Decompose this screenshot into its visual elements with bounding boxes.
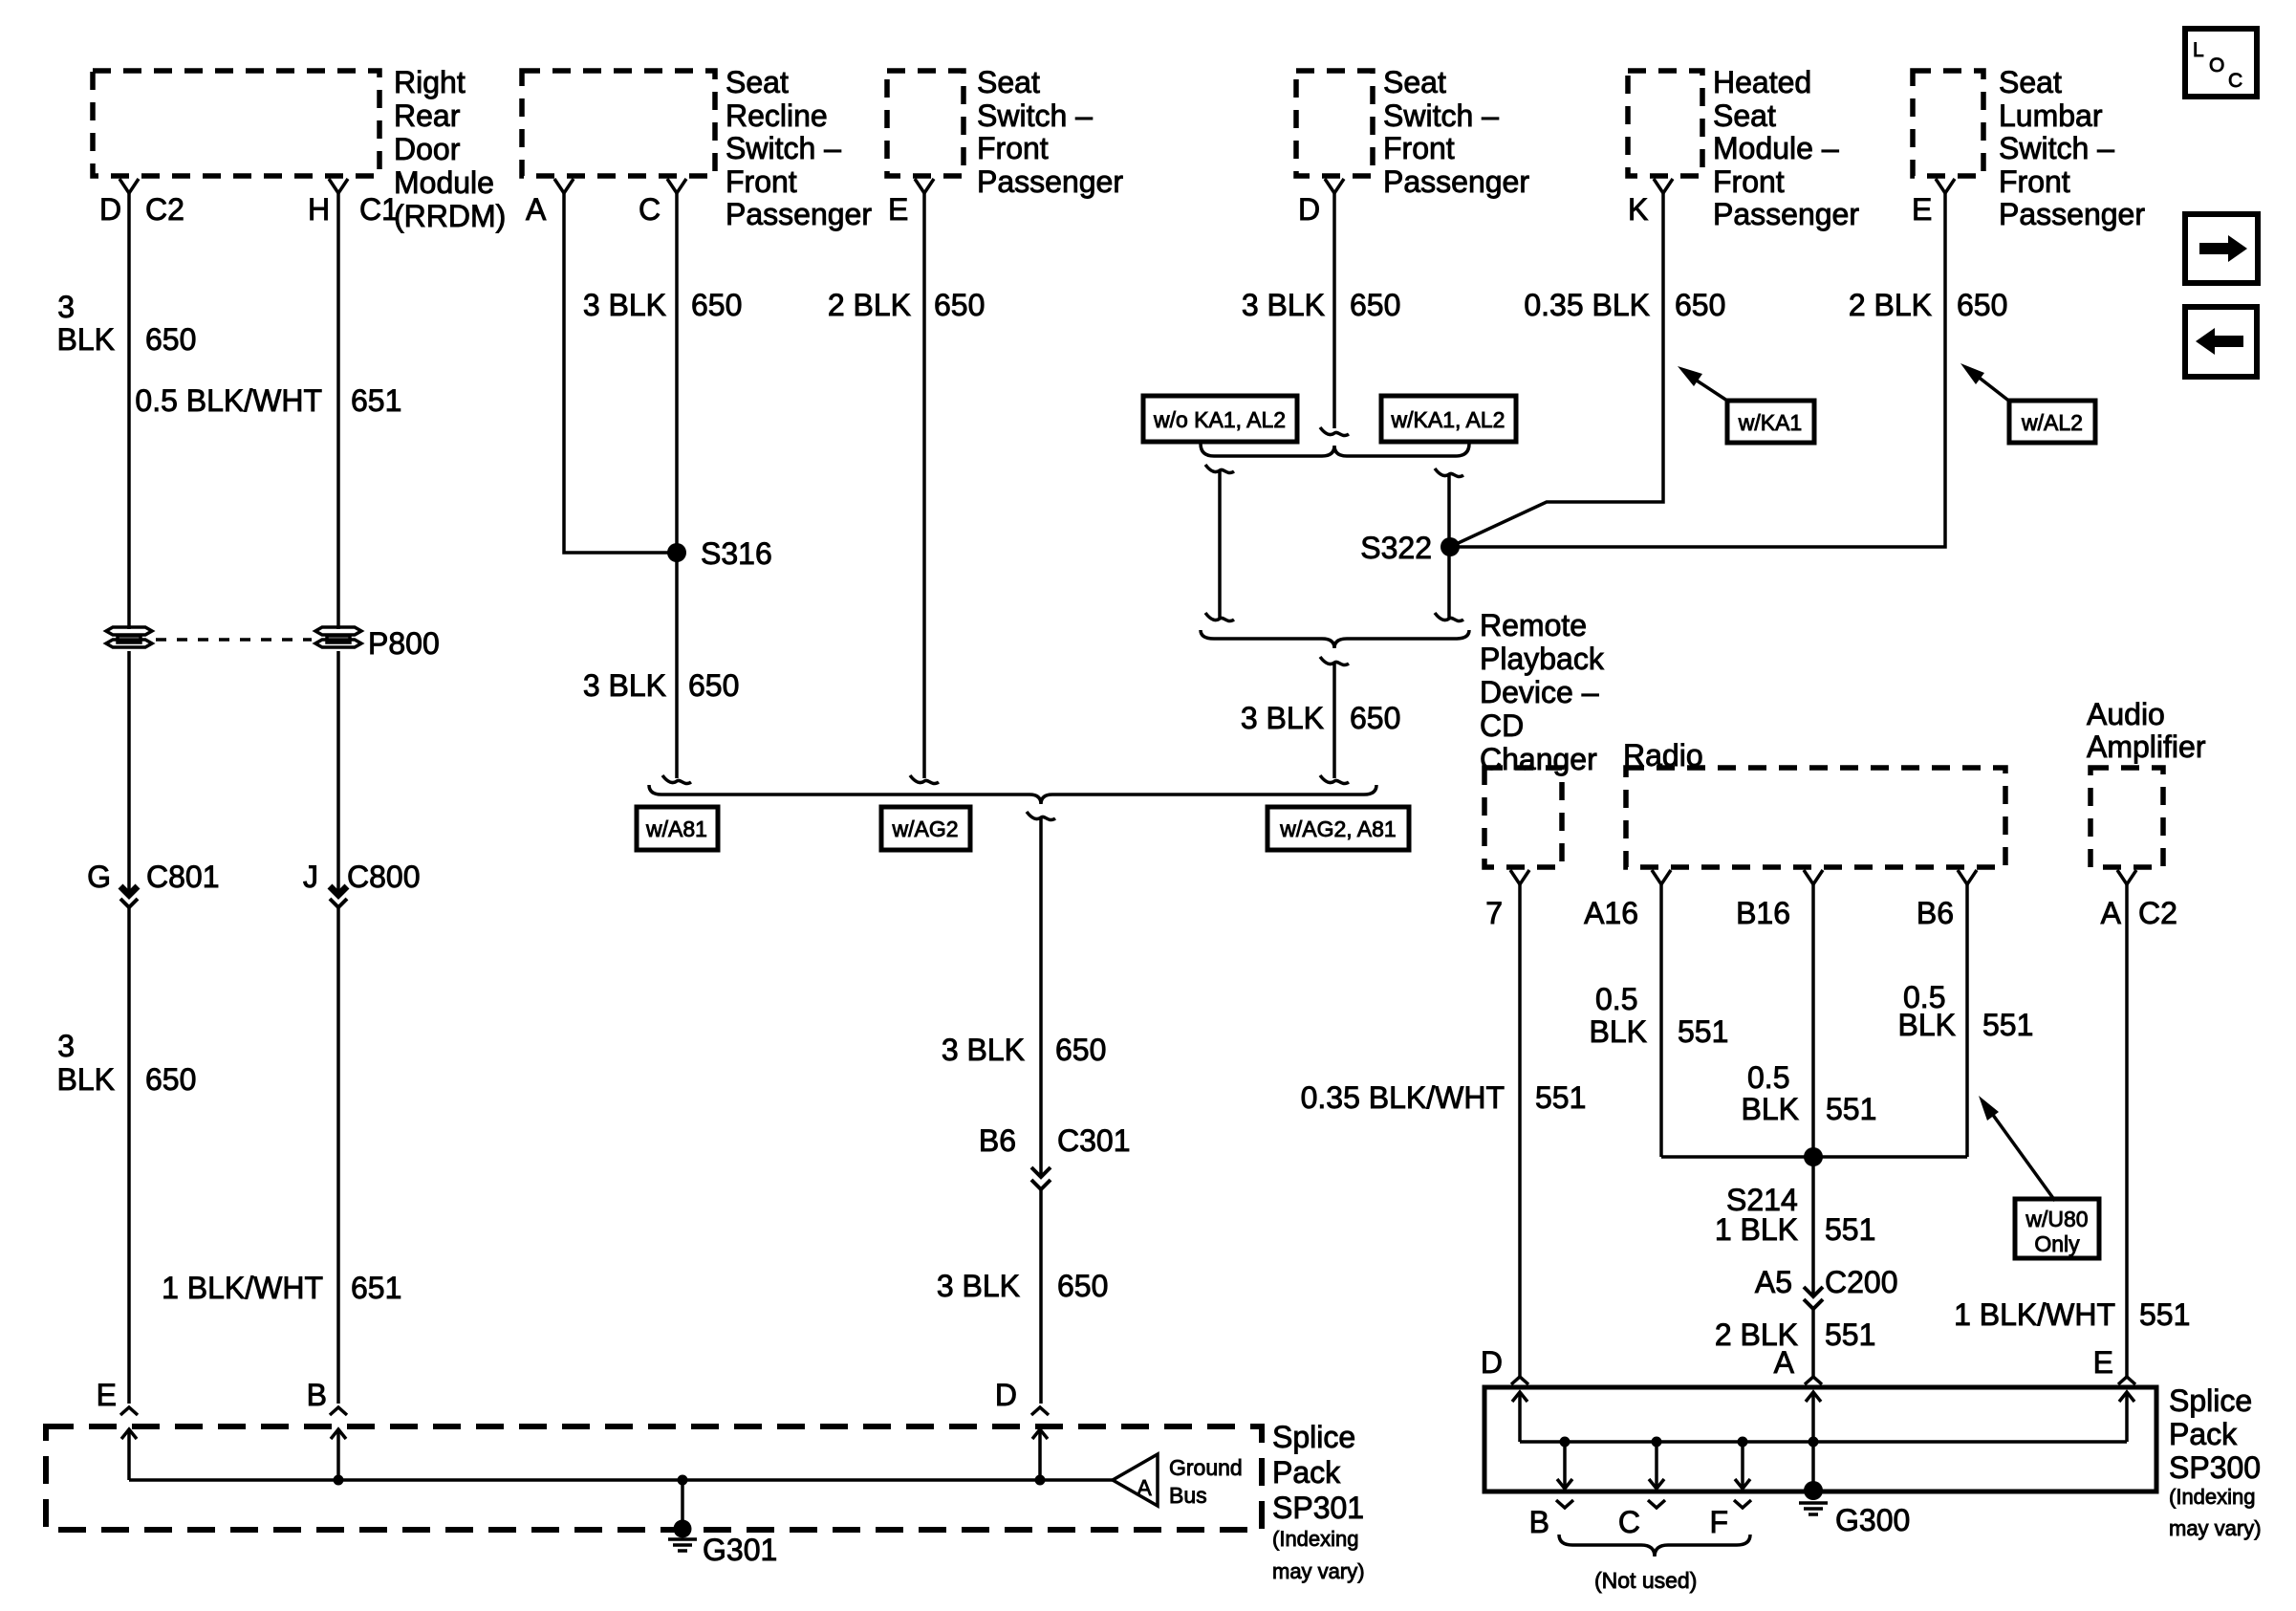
pin B into SP301 [330,1407,347,1415]
svg-text:Pack: Pack [2169,1417,2238,1451]
CD changer ground wire (0.35 BLK/WHT 551) [1518,884,1522,1377]
svg-text:551: 551 [1826,1092,1876,1126]
Seat Switch - Front Passenger box (left) [887,71,964,176]
svg-text:G300: G300 [1835,1503,1910,1537]
svg-text:G301: G301 [703,1533,777,1567]
svg-text:Only: Only [2034,1231,2080,1256]
splice S316 [667,543,686,562]
curl below lower brace [1320,657,1349,665]
SP301 internal arrow E [127,1429,131,1480]
svg-text:3 BLK: 3 BLK [1242,288,1325,322]
option box w/KA1 with pointer [1694,379,1730,403]
svg-text:650: 650 [691,288,742,322]
wire H/C1 upper segment (0.5 BLK/WHT 651) [336,193,340,629]
pin E into SP301 [120,1407,138,1415]
svg-text:551: 551 [2139,1297,2190,1332]
right arrow box [2185,214,2258,283]
svg-text:Seat: Seat [726,65,789,99]
svg-text:Recline: Recline [726,98,828,133]
svg-text:A16: A16 [1584,896,1638,930]
svg-text:Seat: Seat [1713,98,1776,133]
pin D of RRDM [119,179,139,193]
connector C301 (pin B6) [1031,1167,1051,1189]
pin D of seat switch [1325,179,1344,193]
splice S214 [1804,1147,1823,1166]
svg-text:Front: Front [1999,164,2070,199]
ground symbol G300 [1804,1481,1823,1500]
pin A of audio amplifier [2117,870,2136,884]
option box w/AL2 with pointer [1977,376,2011,403]
wire into SP300 pin A (2 BLK 551) [1811,1310,1815,1377]
pin E of lumbar switch [1936,179,1955,193]
svg-text:3 BLK: 3 BLK [937,1269,1020,1303]
svg-text:Splice: Splice [1272,1420,1355,1454]
wire from option group to ground bus brace (3 BLK 650) [1332,664,1336,778]
pin E into SP300 [2118,1377,2135,1384]
svg-text:C200: C200 [1825,1265,1898,1299]
svg-text:K: K [1628,192,1648,227]
svg-text:651: 651 [351,1271,401,1305]
svg-text:551: 551 [1825,1212,1875,1247]
svg-text:Front: Front [726,164,797,199]
pin 7 of CD changer [1510,870,1529,884]
SP301 internal arrow D [1035,1475,1046,1486]
svg-text:BLK: BLK [57,1062,115,1097]
amplifier ground wire (1 BLK/WHT 551) [2125,884,2129,1377]
svg-text:0.5: 0.5 [1595,982,1637,1016]
pin B below SP300 [1556,1500,1573,1508]
ground symbol G301 [674,1520,692,1538]
svg-text:w/KA1, AL2: w/KA1, AL2 [1391,407,1505,432]
wire D/C2 lower segment (3 BLK 650) [127,908,131,1404]
pin C below SP300 [1648,1500,1665,1508]
svg-text:B: B [1529,1505,1549,1539]
svg-text:O: O [2209,54,2224,76]
svg-text:Front: Front [1383,131,1455,165]
svg-text:SP301: SP301 [1272,1491,1364,1525]
svg-text:Rear: Rear [394,98,461,133]
svg-text:551: 551 [1535,1080,1586,1115]
svg-text:3 BLK: 3 BLK [583,288,666,322]
svg-text:w/AG2: w/AG2 [891,816,958,841]
svg-text:SP300: SP300 [2169,1450,2261,1485]
SP301 internal arrow B [334,1475,344,1486]
junction wire A16-B6 [1661,1155,1967,1159]
Seat Lumbar Switch - Front Passenger box [1913,71,1983,176]
svg-text:Passenger: Passenger [1713,197,1859,231]
svg-text:Switch –: Switch – [977,98,1093,133]
svg-text:BLK: BLK [1590,1014,1647,1049]
svg-text:S322: S322 [1360,531,1432,565]
svg-text:(Indexing: (Indexing [2169,1485,2256,1509]
svg-text:B16: B16 [1736,896,1790,930]
pin K of heated seat module [1654,179,1673,193]
wire A of recline switch [564,193,677,553]
svg-text:1 BLK/WHT: 1 BLK/WHT [162,1271,323,1305]
svg-text:Passenger: Passenger [1999,197,2145,231]
wire H/C1 lower segment (1 BLK/WHT 651) [336,908,340,1404]
Seat Switch - Front Passenger box (right) [1296,71,1373,176]
svg-text:7: 7 [1485,896,1503,930]
pin D into SP300 [1511,1377,1528,1384]
svg-text:w/KA1: w/KA1 [1738,410,1802,435]
pin B16 of radio [1804,870,1823,884]
Splice Pack SP300 box [1484,1387,2156,1491]
central ground wire (3 BLK 650) [1039,818,1043,1175]
option box w/KA1, AL2 [1381,396,1516,442]
brace (Not used) under pins B C F [1559,1535,1750,1557]
svg-text:J: J [303,860,318,894]
svg-text:B: B [307,1378,327,1412]
svg-text:Remote: Remote [1480,608,1587,642]
svg-text:651: 651 [351,383,401,418]
pin E of seat switch [915,179,934,193]
svg-text:Pack: Pack [1272,1455,1341,1490]
SP301 internal ground bus wire [129,1478,1113,1482]
pass-through grommet P800 right [315,627,361,635]
SP300 internal arrow E [2125,1392,2129,1442]
svg-text:C: C [1618,1505,1640,1539]
svg-text:G: G [87,860,111,894]
svg-text:A: A [2101,896,2122,930]
svg-text:Passenger: Passenger [726,197,872,231]
svg-text:Module –: Module – [1713,131,1839,165]
svg-text:C800: C800 [347,860,421,894]
svg-text:(Not used): (Not used) [1594,1568,1697,1593]
option box w/AG2, A81 [1267,807,1409,850]
curl below ground bus brace [1027,812,1055,820]
svg-text:0.5 BLK/WHT: 0.5 BLK/WHT [135,383,322,418]
wire A to ground G300 [1811,1442,1815,1487]
SP300 internal arrow B (down) [1560,1437,1570,1448]
ground bus brace [649,785,1376,804]
wire D/C2 upper segment (3 BLK 650) [127,193,131,629]
svg-text:w/A81: w/A81 [645,816,707,841]
svg-text:650: 650 [688,668,739,703]
curl at option wire to ground bus brace [1320,775,1349,784]
svg-text:Changer: Changer [1480,742,1597,776]
svg-text:Switch –: Switch – [726,131,841,165]
svg-text:0.35 BLK: 0.35 BLK [1524,288,1650,322]
svg-text:Radio: Radio [1623,738,1703,773]
Remote Playback Device - CD Changer box [1484,768,1562,867]
radio wire A16 (0.5 BLK 551) [1659,884,1663,1157]
pin D into SP301 [1031,1407,1049,1415]
Radio box [1626,768,2005,867]
svg-text:Device –: Device – [1480,675,1599,709]
left option line [1205,465,1234,473]
svg-text:3 BLK: 3 BLK [942,1033,1025,1067]
svg-text:3: 3 [57,290,75,324]
svg-text:L: L [2193,39,2204,61]
wire E of seat switch (2 BLK 650) [922,193,926,778]
svg-text:F: F [1709,1505,1728,1539]
svg-text:Lumbar: Lumbar [1999,98,2103,133]
splice S322 [1440,537,1460,556]
option box w/U80 Only with pointer [1990,1111,2055,1201]
svg-text:D: D [99,192,121,227]
Audio Amplifier box [2090,768,2163,867]
SP300 internal arrow C (down) [1652,1437,1662,1448]
svg-text:D: D [1481,1345,1503,1380]
svg-text:Playback: Playback [1480,642,1605,676]
curl at D wire end [1320,427,1349,436]
svg-text:C1: C1 [359,192,399,227]
svg-text:Ground: Ground [1169,1455,1243,1480]
wire from S322 to lumbar switch pin E [1450,193,1945,547]
svg-text:C2: C2 [2138,896,2177,930]
SP300 internal arrow A [1809,1437,1819,1448]
SP300 internal arrow D [1518,1392,1522,1442]
svg-text:0.5: 0.5 [1747,1060,1789,1095]
svg-text:Passenger: Passenger [977,164,1123,199]
svg-text:w/AG2, A81: w/AG2, A81 [1279,816,1396,841]
lower option brace [1201,630,1469,648]
svg-text:551: 551 [1678,1014,1728,1049]
svg-text:may vary): may vary) [2169,1516,2262,1540]
connector C801 (pin G) [120,886,138,907]
svg-text:(Indexing: (Indexing [1272,1527,1359,1551]
Seat Recline Switch - Front Passenger box [522,71,715,176]
SP300 internal arrow F (down) [1738,1437,1748,1448]
pin B6 of radio [1958,870,1977,884]
svg-text:551: 551 [1982,1008,2033,1042]
svg-text:650: 650 [1055,1033,1106,1067]
svg-text:P800: P800 [368,626,440,661]
svg-text:1 BLK/WHT: 1 BLK/WHT [1954,1297,2115,1332]
svg-text:2 BLK: 2 BLK [828,288,911,322]
svg-text:Seat: Seat [1383,65,1446,99]
svg-text:Switch –: Switch – [1383,98,1499,133]
svg-text:2 BLK: 2 BLK [1849,288,1932,322]
svg-text:A5: A5 [1755,1265,1792,1299]
wire H/C1 mid segment [336,651,340,893]
svg-text:C2: C2 [145,192,184,227]
pin C of recline switch [667,179,686,193]
option box w/A81 [637,807,718,850]
svg-text:3 BLK: 3 BLK [1241,701,1324,735]
radio wire B16 (0.5 BLK 551) [1811,884,1815,1295]
svg-text:A: A [526,192,547,227]
pass-through grommet P800 left [106,627,152,635]
svg-text:BLK: BLK [1898,1008,1956,1042]
central ground wire lower (3 BLK 650) [1039,1190,1043,1404]
svg-text:1 BLK: 1 BLK [1715,1212,1798,1247]
connector C800 (pin J) [330,886,347,907]
svg-text:C301: C301 [1057,1123,1131,1158]
svg-text:0.35 BLK/WHT: 0.35 BLK/WHT [1301,1080,1505,1115]
svg-text:650: 650 [1350,288,1400,322]
SP300 internal bus [1520,1440,2127,1444]
svg-text:Splice: Splice [2169,1383,2252,1418]
left arrow box [2185,307,2257,377]
svg-text:650: 650 [145,322,196,357]
ground G301 drop [678,1475,688,1486]
svg-text:Amplifier: Amplifier [2087,729,2206,764]
wire C of recline switch (3 BLK 650) [675,193,679,778]
wire from S322 to heated seat module pin K [1450,193,1663,547]
ground bus triangle A [1113,1454,1158,1506]
svg-text:650: 650 [1057,1269,1108,1303]
svg-text:Switch –: Switch – [1999,131,2114,165]
svg-text:Seat: Seat [1999,65,2062,99]
curl at C wire to ground bus brace [662,775,691,784]
svg-text:C: C [639,192,661,227]
Heated Seat Module - Front Passenger box [1628,71,1702,176]
svg-text:B6: B6 [1917,896,1954,930]
svg-text:Passenger: Passenger [1383,164,1529,199]
svg-text:650: 650 [1675,288,1725,322]
svg-text:BLK: BLK [57,322,115,357]
svg-text:Audio: Audio [2087,697,2165,731]
svg-text:551: 551 [1825,1317,1875,1352]
svg-text:Door: Door [394,132,461,166]
pin A into SP300 [1805,1377,1822,1384]
svg-text:Module: Module [394,165,494,200]
wire D/C2 mid segment [127,651,131,893]
pin H of RRDM [329,179,348,193]
wire D of seat switch right (3 BLK 650) [1332,193,1336,428]
svg-text:(RRDM): (RRDM) [394,199,506,233]
pin A of recline switch [554,179,574,193]
svg-text:may vary): may vary) [1272,1559,1365,1583]
svg-text:w/o KA1, AL2: w/o KA1, AL2 [1153,407,1286,432]
svg-text:3: 3 [57,1029,75,1063]
svg-text:H: H [308,192,330,227]
LOC legend box [2185,29,2257,97]
svg-text:E: E [1912,192,1932,227]
svg-text:C801: C801 [146,860,220,894]
svg-text:A: A [1774,1345,1795,1380]
right option line [1435,468,1463,477]
option box w/AG2 [881,807,970,850]
svg-text:D: D [995,1378,1017,1412]
svg-text:E: E [2093,1345,2113,1380]
svg-text:E: E [888,192,908,227]
svg-text:650: 650 [1350,701,1400,735]
pin A16 of radio [1652,870,1671,884]
pin F below SP300 [1734,1500,1751,1508]
svg-text:650: 650 [145,1062,196,1097]
option box w/o KA1, AL2 [1143,396,1297,442]
curl at E wire to ground bus brace [910,775,939,784]
upper option brace [1201,444,1469,456]
svg-text:Right: Right [394,65,466,99]
svg-text:BLK: BLK [1742,1092,1799,1126]
radio wire B6 (0.5 BLK 551) [1965,884,1969,1157]
svg-text:CD: CD [1480,708,1524,743]
svg-text:Front: Front [977,131,1049,165]
svg-text:3 BLK: 3 BLK [583,668,666,703]
svg-text:Seat: Seat [977,65,1040,99]
svg-text:w/AL2: w/AL2 [2021,410,2083,435]
svg-text:C: C [2228,70,2242,92]
svg-text:D: D [1298,192,1320,227]
svg-text:A: A [1137,1475,1152,1500]
svg-text:650: 650 [1957,288,2007,322]
svg-text:Heated: Heated [1713,65,1811,99]
connector C200 (pin A5) [1804,1287,1823,1309]
dashed tie line between grommets [156,638,312,642]
svg-text:B6: B6 [979,1123,1016,1158]
svg-text:w/U80: w/U80 [2025,1207,2088,1231]
Splice Pack SP301 box [46,1426,1262,1530]
svg-text:E: E [97,1378,117,1412]
svg-text:S316: S316 [701,536,772,571]
svg-text:Bus: Bus [1169,1483,1207,1508]
svg-text:650: 650 [934,288,985,322]
Right Rear Door Module (RRDM) box [93,71,379,176]
svg-text:Front: Front [1713,164,1785,199]
